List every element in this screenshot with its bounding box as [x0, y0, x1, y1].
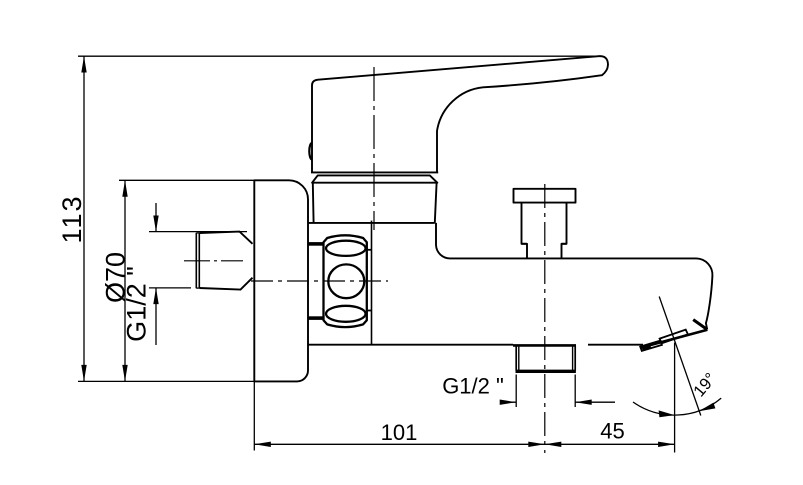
- svg-text:101: 101: [381, 420, 418, 445]
- svg-text:G1/2 ": G1/2 ": [442, 374, 504, 399]
- svg-text:G1/2 ": G1/2 ": [122, 266, 152, 342]
- svg-text:45: 45: [600, 419, 624, 444]
- svg-text:113: 113: [57, 194, 87, 243]
